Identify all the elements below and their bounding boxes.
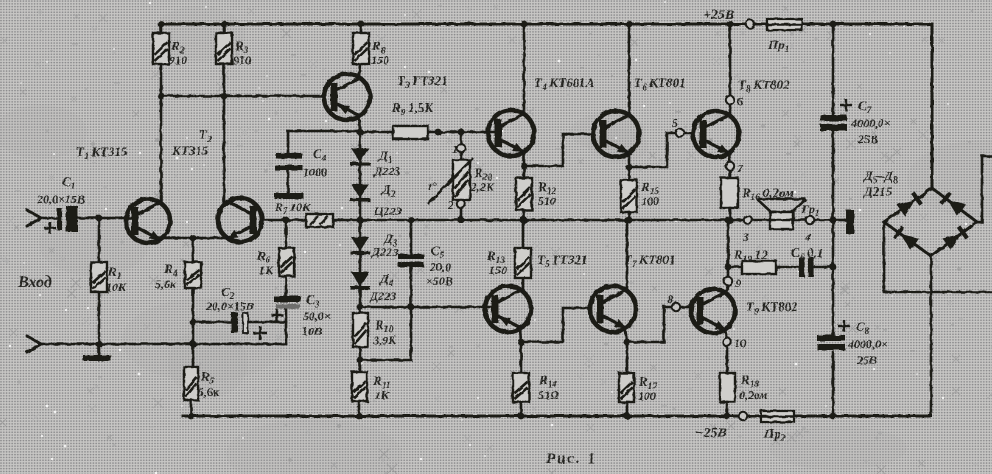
- input arrow top: [27, 210, 41, 226]
- svg-text:t°: t°: [428, 179, 436, 193]
- fuse Pr2: [761, 411, 794, 422]
- svg-text:25В: 25В: [857, 132, 878, 146]
- input arrow bottom: [27, 336, 41, 352]
- transistor T4 KT601A: [488, 110, 534, 156]
- transistor T6 KT801: [593, 111, 639, 157]
- ground bar below C4: [274, 193, 304, 199]
- svg-text:9: 9: [735, 276, 741, 290]
- pin 6: [726, 96, 734, 104]
- bridge rectifier D5-D8 D215: [884, 188, 977, 256]
- resistor R7: [306, 214, 333, 227]
- wire R4 chain down: [191, 238, 193, 416]
- resistor R1: [98, 218, 101, 355]
- resistor R13: [522, 220, 525, 290]
- svg-text:5,6к: 5,6к: [198, 385, 220, 399]
- pin 8: [672, 303, 680, 311]
- svg-text:Д223: Д223: [373, 164, 400, 178]
- pin on -25V rail: [739, 412, 747, 420]
- wire T9 collector chain with pin 9: [726, 220, 728, 293]
- pin 4 on output line: [806, 216, 814, 224]
- transistor T3 GT321: [324, 74, 370, 120]
- svg-text:КТ315: КТ315: [171, 143, 209, 158]
- capacitor C8 4000,0x25V: [817, 335, 845, 341]
- wire T8 emitter to pin7/R16: [729, 153, 730, 178]
- resistor R8: [353, 33, 369, 64]
- svg-text:910: 910: [233, 53, 251, 67]
- capacitor C1: [41, 217, 58, 220]
- wire T8 collector to rail: [729, 24, 732, 115]
- svg-text:20,0×15В: 20,0×15В: [36, 192, 85, 206]
- wire T3 base line y=96: [161, 95, 325, 98]
- svg-text:7: 7: [737, 161, 744, 175]
- wire T9 emitter to pin10/R18: [725, 330, 727, 373]
- svg-text:6: 6: [737, 94, 743, 108]
- svg-text:1000: 1000: [303, 165, 327, 179]
- svg-text:150: 150: [371, 53, 389, 67]
- svg-text:510: 510: [538, 194, 556, 208]
- output terminal bar: [833, 219, 846, 222]
- resistor R5: [184, 367, 198, 400]
- resistor R14: [513, 373, 529, 402]
- diode D3 D223: [359, 220, 362, 307]
- node diode column / line y=220: [357, 217, 364, 224]
- pin 7: [726, 162, 734, 170]
- node R13 top junction: [520, 217, 527, 224]
- node output/C7-C8 midline: [830, 217, 837, 224]
- svg-text:0,2ом: 0,2ом: [739, 388, 768, 402]
- svg-text:100: 100: [638, 389, 656, 403]
- node junction dots on top rail: [158, 21, 165, 28]
- svg-text:Д215: Д215: [863, 184, 893, 199]
- svg-text:−25В: −25В: [695, 426, 727, 441]
- node R19 junction: [725, 264, 732, 271]
- bottom -25V rail: [183, 415, 931, 418]
- resistor R19 12: [728, 266, 798, 269]
- transistor T7 KT801: [590, 286, 636, 332]
- wire R9 node to T4 base: [360, 131, 498, 134]
- svg-text:8: 8: [667, 292, 673, 306]
- wire C7 branch from rail: [832, 24, 835, 416]
- wire T6 collector to rail: [628, 24, 631, 115]
- wire long feedback/output line y=220: [264, 219, 832, 222]
- resistor R9: [393, 126, 428, 139]
- svg-text:+25В: +25В: [703, 8, 734, 23]
- transistor T9 KT802: [691, 289, 735, 333]
- capacitor C2: [193, 321, 286, 324]
- svg-text:20,0: 20,0: [429, 260, 451, 274]
- svg-text:10: 10: [734, 336, 746, 350]
- diode D2 D223: [351, 184, 369, 198]
- svg-text:1К: 1К: [375, 388, 390, 402]
- svg-text:910: 910: [169, 53, 187, 67]
- svg-text:150: 150: [489, 263, 507, 277]
- svg-text:1К: 1К: [259, 263, 274, 277]
- resistor R17: [619, 373, 634, 402]
- svg-text:25В: 25В: [856, 353, 877, 367]
- node dot at R2 line / base line: [158, 93, 165, 100]
- wire T4 emitter to R12 and T6 base: [524, 134, 593, 178]
- resistor R16 0,2om: [721, 178, 738, 208]
- wire T4 collector to rail: [523, 24, 526, 114]
- wire bridge bottom to -25V rail: [930, 256, 933, 416]
- wire R3 drop from rail to T2 collector: [223, 24, 226, 202]
- transistor T5 GT321: [485, 286, 531, 332]
- svg-text:100: 100: [641, 194, 659, 208]
- resistor R18 0,2om: [720, 373, 735, 402]
- transistor T1 KT315: [126, 199, 170, 243]
- pin 3 on output line: [744, 216, 752, 224]
- svg-text:51Ω: 51Ω: [538, 388, 559, 402]
- svg-text:Вход: Вход: [17, 274, 52, 291]
- node diode column bottom / base line: [357, 304, 364, 311]
- capacitor C5: [360, 220, 411, 360]
- resistor R4: [185, 262, 201, 288]
- svg-text:1: 1: [452, 142, 458, 156]
- node input/R1 junction: [96, 215, 103, 222]
- svg-text:20,0×15В: 20,0×15В: [205, 299, 254, 313]
- svg-text:×50В: ×50В: [426, 274, 453, 288]
- wire bridge left vertex down and AC line: [884, 222, 992, 292]
- resistor R6: [285, 220, 288, 248]
- resistor R15: [621, 180, 637, 212]
- wire bridge right vertex to transformer: [977, 156, 992, 222]
- diode D4 D223: [351, 272, 369, 286]
- resistor R2: [153, 33, 169, 64]
- wire R2 drop from rail: [160, 24, 163, 200]
- svg-text:5,6к: 5,6к: [155, 277, 177, 291]
- pin 5: [676, 129, 684, 137]
- wire right side rail down to bridge: [931, 24, 934, 188]
- wire R8 drop from rail to T3 collector: [359, 24, 361, 77]
- ground bar below R1: [83, 355, 111, 361]
- svg-text:2,2К: 2,2К: [470, 180, 495, 194]
- thermistor R20 2,2K: [460, 132, 463, 220]
- svg-text:Ц223: Ц223: [373, 204, 401, 218]
- svg-text:50,0×: 50,0×: [303, 309, 331, 323]
- svg-text:4000,0×: 4000,0×: [850, 116, 891, 130]
- wire lower input/ground line y=344: [41, 343, 286, 346]
- capacitor C7 4000,0x25V: [820, 115, 847, 121]
- wire T5 emitter to R14 and T7 base: [520, 308, 590, 373]
- svg-text:4000,0×: 4000,0×: [847, 337, 888, 351]
- pin 9: [724, 277, 732, 285]
- svg-text:Рис. 1: Рис. 1: [546, 451, 597, 467]
- resistor R12: [516, 178, 532, 210]
- pin 10: [723, 338, 731, 346]
- svg-text:3,9К: 3,9К: [372, 333, 397, 347]
- svg-text:4: 4: [804, 230, 811, 244]
- diode D1 D223: [359, 132, 362, 220]
- fuse Pr1 on +25V rail: [746, 20, 754, 28]
- wire T1/T2 emitter link: [157, 237, 225, 240]
- node dot at R3 line / base line: [221, 93, 228, 100]
- resistor R10: [359, 307, 362, 372]
- svg-text:2: 2: [447, 198, 454, 212]
- svg-text:Д223: Д223: [369, 289, 396, 303]
- top +25V rail: [160, 23, 932, 26]
- transistor T8 KT802: [693, 111, 739, 157]
- wire T7 emitter to R17 and T9 base: [625, 307, 692, 373]
- wire T3 emitter node line y=132: [288, 118, 360, 131]
- svg-text:3: 3: [742, 230, 749, 244]
- resistor R3: [216, 33, 232, 64]
- wire T5 base line: [360, 306, 496, 309]
- svg-text:10В: 10В: [302, 324, 322, 338]
- capacitor C6 0,1: [799, 257, 805, 277]
- wire T6 emitter to R15 and T8 base: [629, 133, 694, 180]
- loudspeaker Gr1: [770, 212, 793, 229]
- resistor R11: [352, 372, 367, 401]
- capacitor C3: [285, 276, 288, 344]
- svg-text:Д223: Д223: [371, 245, 398, 259]
- svg-text:5: 5: [672, 116, 678, 130]
- svg-text:10К: 10К: [106, 280, 127, 294]
- wire T7 collector up: [626, 220, 629, 290]
- transistor T2 KT315: [218, 198, 262, 242]
- node C2 tap junction: [190, 319, 197, 326]
- capacitor C4: [287, 131, 290, 193]
